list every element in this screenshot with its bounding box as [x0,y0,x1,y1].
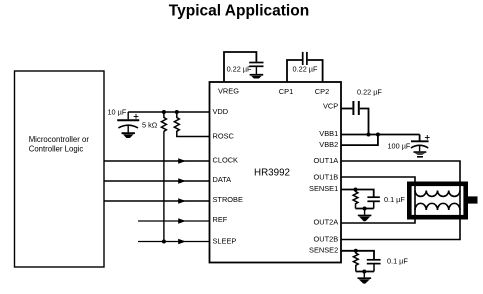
node dot VBB2-VBB1 [376,133,380,137]
svg-text:0.22 µF: 0.22 µF [357,88,382,97]
svg-text:STROBE: STROBE [213,195,243,204]
svg-text:VBB2: VBB2 [319,140,338,149]
ground under 10uF [122,132,135,138]
svg-text:CP2: CP2 [315,87,329,96]
wire sense2 gnd stub [363,272,365,278]
wire VBB1 [341,134,420,136]
ground sense2 [358,277,372,283]
svg-text:VBB1: VBB1 [319,129,338,138]
wire CP2 riser [308,60,323,82]
svg-text:10 µF: 10 µF [108,108,127,117]
svg-text:ROSC: ROSC [213,131,235,140]
arrow DATA [178,178,186,183]
microcontroller box [15,71,105,267]
node dot VDD/ROSC resistor [175,110,179,114]
arrow STROBE [178,198,186,203]
node dot SENSE2 top [354,249,358,253]
svg-text:100 µF: 100 µF [388,141,411,150]
motor M1 box [409,184,465,217]
svg-text:VDD: VDD [213,107,229,116]
resistor R4 sense2 [353,251,358,272]
wire sense2 bottom [356,271,374,273]
svg-text:0.22 µF: 0.22 µF [227,65,252,74]
svg-text:5 kΩ: 5 kΩ [142,121,158,130]
wire SENSE1 [341,190,374,198]
wire SLEEP [138,241,210,243]
node dot SENSE1 top [354,188,358,192]
ground under C5 [414,151,427,157]
node dot sense2 gnd [362,270,366,274]
arrow SLEEP [178,239,186,244]
motor shaft stub [466,196,478,203]
node dot VCP-VBB1 [367,133,371,137]
resistor R2 (VDD to ROSC) [174,112,209,137]
wire VCP to C4 [341,108,352,110]
motor winding 1 (top) [415,191,460,197]
wire OUT1B / OUT2A loop [341,177,415,223]
svg-text:SENSE1: SENSE1 [309,184,338,193]
capacitor C2 10uF electrolytic [108,108,140,133]
svg-text:REF: REF [213,215,228,224]
arrow CLOCK [178,158,186,163]
svg-text:Controller Logic: Controller Logic [29,144,84,153]
svg-text:OUT1A: OUT1A [314,156,339,165]
capacitor C4 0.22uF (VCP reservoir) [353,88,382,116]
wire CP1 riser [287,60,302,82]
wire VREG riser to C1 [224,52,256,82]
svg-text:OUT1B: OUT1B [314,172,339,181]
resistor R3 sense1 [353,190,358,209]
wire sense1 gnd stub [364,209,366,215]
wire STROBE [104,200,210,202]
wire VBB2 [341,135,378,146]
svg-text:SLEEP: SLEEP [213,237,237,246]
wire sense1 bottom [356,208,374,210]
svg-text:OUT2B: OUT2B [314,234,339,243]
motor winding 2 (bottom) [415,203,460,210]
capacitor C3 0.22uF (charge pump CP1-CP2) [293,52,318,74]
wire DATA [104,180,210,182]
svg-text:VCP: VCP [323,102,338,111]
wire VDD from 10uF to IC [128,111,209,113]
wire 5k resistor down to SLEEP [163,131,165,241]
svg-text:0.1 µF: 0.1 µF [384,195,405,204]
wire SENSE2 [341,251,374,260]
node dot SLEEP junction [162,240,166,244]
IC U1 HR3992 box [210,82,342,263]
svg-text:OUT2A: OUT2A [314,218,339,227]
resistor R1 5 kOhm (VDD pull-up to SLEEP) [142,112,166,131]
capacitor C7 0.1uF sense2 [367,256,409,271]
capacitor C1 0.22uF (VREG bypass) [227,63,264,75]
arrow REF [178,218,186,223]
capacitor C6 0.1uF sense1 [367,195,405,209]
svg-text:HR3992: HR3992 [254,167,290,178]
svg-text:DATA: DATA [213,175,232,184]
wire CLOCK [104,160,210,162]
capacitor C5 100uF electrolytic [388,135,430,152]
wire REF [138,220,210,222]
svg-text:CP1: CP1 [279,87,293,96]
svg-text:0.1 µF: 0.1 µF [387,256,408,265]
node dot VDD/5k [162,110,166,114]
svg-text:Typical Application: Typical Application [169,3,309,20]
wire OUT1A / OUT2B loop [341,161,460,240]
node dot sense1 gnd [363,207,367,211]
ground sense1 [358,215,372,222]
svg-text:SENSE2: SENSE2 [309,245,338,254]
svg-text:CLOCK: CLOCK [213,155,239,164]
svg-text:Microcontroller or: Microcontroller or [29,135,90,144]
svg-text:0.22 µF: 0.22 µF [293,65,318,74]
wire C4 to VBB1 [360,109,369,135]
ground under C1 [250,74,264,79]
svg-text:VREG: VREG [218,87,239,96]
